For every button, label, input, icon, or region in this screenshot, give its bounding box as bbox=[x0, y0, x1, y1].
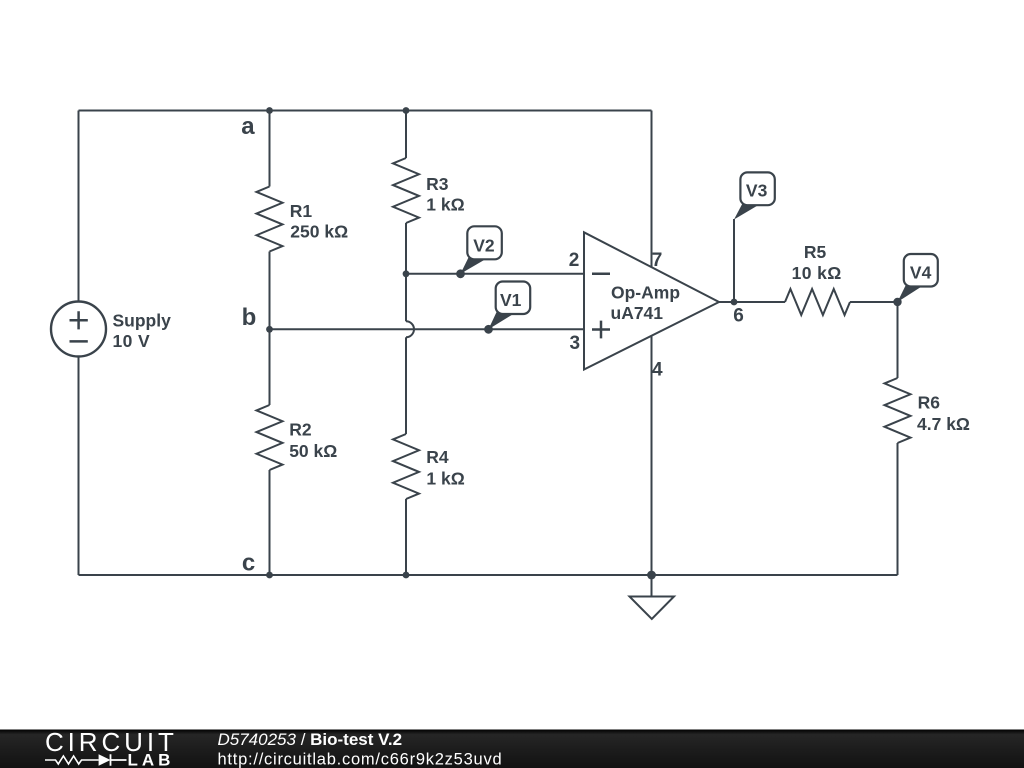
wire left vertical upper bbox=[78, 111, 80, 302]
voltage source minus sign bbox=[70, 340, 88, 343]
probe V1 pointer wedge bbox=[489, 312, 513, 330]
probe V3 box bbox=[740, 172, 774, 205]
svg-text:1 kΩ: 1 kΩ bbox=[426, 195, 464, 215]
resistor R2 bbox=[257, 405, 283, 470]
svg-text:Op-Amp: Op-Amp bbox=[611, 283, 680, 303]
wire R2 lower lead bbox=[269, 470, 271, 575]
svg-text:LAB: LAB bbox=[128, 750, 175, 768]
wire op-amp pin 7 supply from top rail bbox=[651, 111, 653, 268]
wire R6 lower lead to bottom rail bbox=[897, 443, 899, 575]
svg-text:R1: R1 bbox=[290, 201, 313, 221]
svg-text:7: 7 bbox=[652, 250, 663, 271]
wire R1 to R2 bbox=[269, 252, 271, 406]
svg-text:D5740253 / Bio-test V.2: D5740253 / Bio-test V.2 bbox=[218, 730, 403, 749]
probe V2 dot on pin2 wire bbox=[456, 269, 465, 278]
svg-text:10 V: 10 V bbox=[113, 331, 151, 351]
svg-text:V1: V1 bbox=[500, 290, 522, 310]
resistor R1 bbox=[257, 187, 283, 252]
svg-text:V4: V4 bbox=[910, 263, 932, 283]
wire probe V3 vertical bbox=[733, 219, 735, 302]
svg-text:a: a bbox=[241, 113, 255, 140]
probe V4 box bbox=[904, 254, 938, 287]
op-amp plus input symbol bbox=[592, 321, 610, 339]
svg-text:V2: V2 bbox=[473, 236, 495, 256]
wire hop to R4 bbox=[405, 337, 407, 434]
junction dot node V4 bbox=[893, 298, 901, 306]
svg-text:http://circuitlab.com/c66r9k2z: http://circuitlab.com/c66r9k2z53uvd bbox=[218, 751, 503, 768]
wire hop over node b wire bbox=[406, 321, 414, 337]
node b junction dot bbox=[266, 326, 273, 333]
svg-text:250 kΩ: 250 kΩ bbox=[290, 222, 348, 242]
footer bar bbox=[0, 730, 1024, 768]
resistor R6 bbox=[885, 378, 911, 443]
wire op-amp pin 4 to ground rail bbox=[651, 336, 653, 575]
svg-text:Supply: Supply bbox=[113, 311, 172, 331]
svg-text:R6: R6 bbox=[918, 393, 941, 413]
svg-text:R3: R3 bbox=[426, 174, 449, 194]
svg-text:4: 4 bbox=[652, 360, 663, 381]
wire left vertical lower bbox=[78, 357, 80, 576]
wire node V4 to R6 bbox=[897, 302, 899, 378]
wire op-amp output to R5 bbox=[719, 301, 785, 303]
svg-text:R4: R4 bbox=[426, 447, 449, 467]
svg-text:10 kΩ: 10 kΩ bbox=[792, 263, 842, 283]
resistor R4 bbox=[393, 434, 419, 499]
svg-text:4.7 kΩ: 4.7 kΩ bbox=[917, 414, 970, 434]
wire R5 to node V4 bbox=[850, 301, 898, 303]
svg-text:c: c bbox=[242, 550, 255, 577]
resistor R5 bbox=[785, 289, 850, 315]
wire R4 lower lead bbox=[405, 499, 407, 575]
svg-text:R5: R5 bbox=[804, 242, 827, 262]
probe V1 box bbox=[496, 282, 531, 315]
node a junction dot bbox=[266, 107, 273, 114]
probe V2 pointer wedge bbox=[461, 258, 486, 274]
node c junction dot bbox=[266, 572, 273, 579]
junction dot output node 6 bbox=[731, 299, 738, 306]
ground symbol bbox=[630, 575, 675, 619]
probe V1 dot on node b wire bbox=[484, 325, 493, 334]
wire R3 to hop bbox=[405, 223, 407, 321]
probe V4 pointer wedge bbox=[898, 285, 923, 302]
svg-text:b: b bbox=[242, 304, 257, 331]
svg-text:3: 3 bbox=[570, 333, 581, 354]
junction dot pin4 at bottom rail bbox=[647, 571, 656, 580]
wire branch R1 upper lead bbox=[269, 111, 271, 187]
wire top rail a bbox=[79, 110, 652, 112]
op-amp minus input symbol bbox=[592, 273, 610, 276]
svg-text:6: 6 bbox=[733, 306, 744, 327]
CircuitLab logo resistor and diode glyph bbox=[45, 756, 99, 764]
junction dot R4 branch at bottom rail bbox=[403, 572, 410, 579]
junction dot pin2 wire at R3 branch bbox=[403, 270, 410, 277]
resistor R3 bbox=[393, 158, 419, 223]
wire branch R3 upper lead bbox=[405, 111, 407, 159]
wire op-amp inverting input pin 2 bbox=[406, 273, 584, 275]
svg-text:V3: V3 bbox=[746, 181, 768, 201]
svg-text:50 kΩ: 50 kΩ bbox=[289, 441, 337, 461]
junction dot R3 branch at top rail bbox=[403, 107, 410, 114]
svg-text:2: 2 bbox=[569, 250, 580, 271]
svg-text:uA741: uA741 bbox=[611, 303, 664, 323]
wire bottom rail c bbox=[79, 574, 898, 576]
voltage source plus sign bbox=[70, 311, 88, 329]
wire node b to op-amp pin 3 bbox=[270, 328, 585, 330]
svg-text:1 kΩ: 1 kΩ bbox=[426, 468, 464, 488]
probe V2 box bbox=[467, 226, 502, 259]
probe V3 pointer wedge bbox=[734, 204, 759, 220]
op-amp U1 triangle bbox=[584, 232, 719, 369]
svg-text:R2: R2 bbox=[289, 419, 312, 439]
voltage source V Supply circle bbox=[51, 302, 106, 357]
